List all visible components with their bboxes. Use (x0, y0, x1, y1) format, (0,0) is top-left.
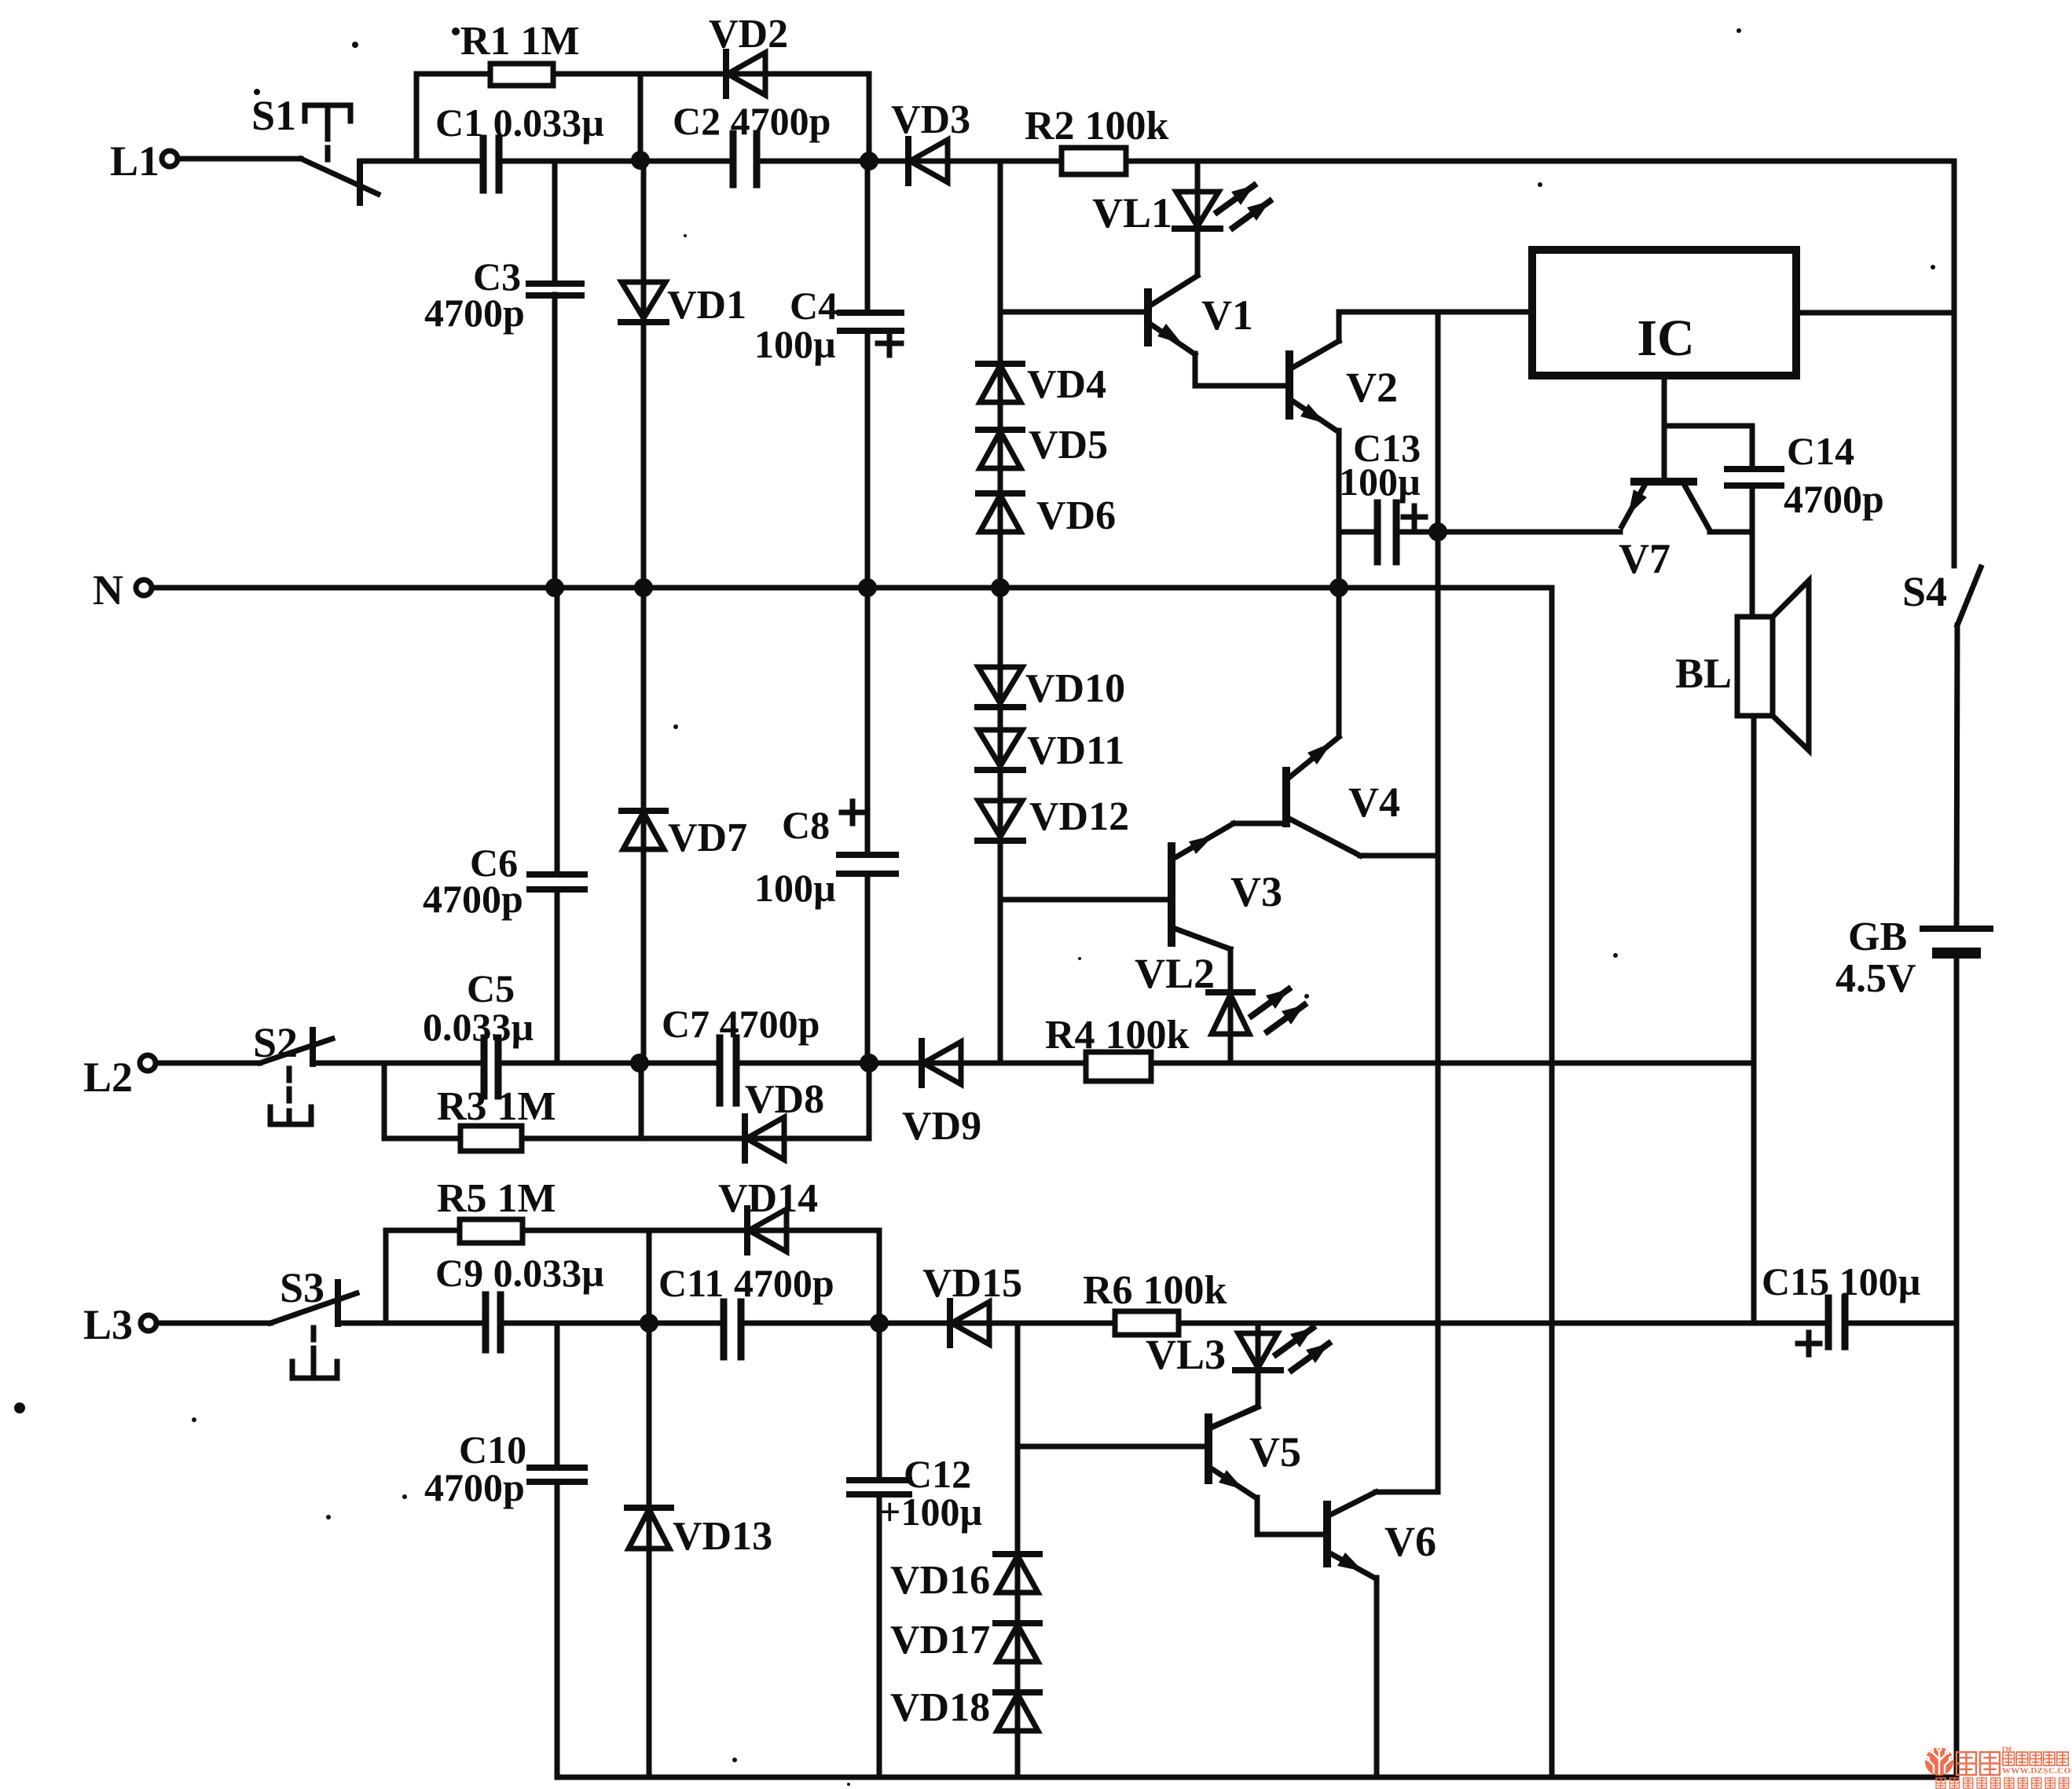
wire N drop column (1549, 588, 1555, 1777)
wire L2 lead (156, 1061, 260, 1066)
svg-text:C7 4700p: C7 4700p (662, 1002, 820, 1046)
capacitor C1 (435, 101, 604, 190)
wire S4 to GB (1956, 625, 1957, 929)
switch S2 (253, 1019, 332, 1124)
wire bottom line (557, 1775, 1956, 1780)
svg-text:R3 1M: R3 1M (437, 1084, 556, 1129)
svg-text:C14: C14 (1787, 429, 1854, 473)
diode VD6 (978, 493, 1116, 538)
svg-text:S3: S3 (280, 1264, 325, 1311)
svg-text:VD15: VD15 (922, 1261, 1022, 1306)
svg-text:L2: L2 (83, 1054, 133, 1101)
wire VL1 column (1195, 161, 1201, 275)
diode VD14 (718, 1176, 818, 1252)
diode VD2 (709, 12, 788, 96)
resistor R2 (1025, 104, 1169, 174)
svg-text:VD1: VD1 (667, 283, 746, 328)
resistor R5 (437, 1176, 556, 1243)
diode VD12 (977, 794, 1129, 841)
svg-text:VD9: VD9 (902, 1104, 981, 1149)
svg-text:C11 4700p: C11 4700p (658, 1261, 834, 1305)
led VL1 (1092, 185, 1270, 236)
transistor V7 (1619, 482, 1710, 582)
diode VD13 (627, 1508, 772, 1559)
node junction C2-VD3 (860, 152, 878, 170)
led VL3 (1146, 1328, 1329, 1378)
wire V1 emitter (1195, 354, 1289, 386)
svg-text:VD5: VD5 (1029, 423, 1108, 467)
wire L1 lead (178, 156, 301, 162)
diode VD15 (922, 1261, 1022, 1345)
svg-text:VL3: VL3 (1146, 1331, 1226, 1378)
wire V3 emitter to VL2 (1228, 949, 1234, 1063)
svg-text:V4: V4 (1348, 779, 1400, 826)
node junction C1-C2 (631, 151, 650, 170)
capacitor C5 (423, 966, 534, 1096)
svg-text:VD12: VD12 (1029, 794, 1129, 839)
resistor R4 (1045, 1013, 1190, 1081)
svg-text:BL: BL (1675, 650, 1732, 697)
wire V4 emitter (1360, 853, 1438, 859)
node junction C13 out (1428, 522, 1447, 541)
svg-text:4700p: 4700p (1784, 477, 1884, 521)
svg-text:R6 100k: R6 100k (1083, 1268, 1227, 1313)
wire L2 main line (313, 1061, 1754, 1066)
capacitor C9 (435, 1251, 604, 1350)
wire R5 row (386, 1230, 879, 1323)
diode VD9 (902, 1041, 981, 1149)
capacitor C13 (1339, 426, 1425, 562)
svg-text:R1 1M: R1 1M (460, 19, 580, 64)
svg-text:S2: S2 (253, 1019, 298, 1066)
node L3 terminal (83, 1301, 156, 1348)
svg-text:VD6: VD6 (1036, 493, 1116, 538)
capacitor C4 (754, 161, 901, 588)
diode VD5 (978, 423, 1108, 468)
wire V2 collector (1339, 312, 1532, 341)
capacitor C2 (673, 99, 831, 185)
capacitor C14 (1664, 426, 1884, 521)
diode VD7 (622, 811, 747, 860)
capacitor C3 (424, 161, 581, 588)
transistor V6 (1327, 1492, 1436, 1578)
wire V1 base (1000, 310, 1148, 315)
led VL2 (1135, 950, 1304, 1034)
capacitor C7 (662, 1002, 820, 1103)
svg-text:C8: C8 (782, 803, 830, 847)
diode VD3 (891, 97, 970, 183)
transistor V3 (1172, 823, 1282, 949)
diode VD16 (890, 1554, 1040, 1603)
svg-text:R4 100k: R4 100k (1045, 1013, 1190, 1058)
svg-text:VD13: VD13 (673, 1514, 772, 1559)
svg-text:VD16: VD16 (890, 1558, 990, 1603)
diode VD18 (890, 1685, 1040, 1731)
svg-text:VD7: VD7 (668, 816, 747, 860)
svg-text:WWW.DZSC.COM: WWW.DZSC.COM (2002, 1766, 2072, 1776)
switch S4 (1902, 567, 1981, 625)
svg-text:S4: S4 (1902, 568, 1947, 615)
svg-text:VD8: VD8 (745, 1077, 824, 1122)
wire top right column (1952, 161, 1957, 566)
wire L3 main line (338, 1321, 1956, 1326)
svg-text:VD11: VD11 (1027, 728, 1124, 773)
node N terminal (93, 566, 152, 614)
wire V3 base (1003, 897, 1172, 903)
wire main right column (1436, 312, 1441, 1490)
svg-text:0.033µ: 0.033µ (423, 1005, 534, 1049)
svg-text:4.5V: 4.5V (1835, 956, 1916, 1001)
svg-text:+100µ: +100µ (878, 1490, 982, 1534)
diode VD17 (890, 1618, 1040, 1663)
wire R1 row (416, 74, 869, 161)
svg-text:C15 100µ: C15 100µ (1762, 1259, 1920, 1303)
svg-text:VD17: VD17 (890, 1618, 990, 1663)
op-amp U1 IC box (1532, 250, 1796, 376)
switch S3 (270, 1264, 357, 1378)
wire V6 emitter column (1374, 1578, 1380, 1777)
diode VD1 (621, 161, 746, 588)
svg-text:V6: V6 (1384, 1518, 1436, 1565)
svg-text:VD4: VD4 (1027, 362, 1106, 407)
wire VL3 to V5 collector (1212, 1406, 1258, 1428)
svg-text:R5 1M: R5 1M (437, 1176, 556, 1221)
svg-text:C4: C4 (790, 284, 838, 328)
svg-text:100µ: 100µ (754, 322, 836, 366)
svg-text:VL2: VL2 (1135, 950, 1215, 997)
wire VD16 column (1015, 1323, 1021, 1777)
resistor R6 (1083, 1268, 1227, 1335)
wire V5 emitter (1257, 1498, 1327, 1534)
wire R5 left vertical (383, 1230, 389, 1323)
svg-text:V5: V5 (1249, 1428, 1301, 1476)
wire VL3 column (1256, 1323, 1261, 1406)
svg-text:4700p: 4700p (424, 1465, 525, 1509)
wire V6 collector (1376, 1490, 1438, 1495)
resistor R1 (460, 19, 580, 86)
node L2 terminal (83, 1054, 156, 1101)
battery GB 4.5V (1835, 915, 1990, 1001)
svg-text:V3: V3 (1230, 868, 1282, 915)
wire BL column (1751, 716, 1757, 1323)
wire V2 emitter column (1337, 431, 1342, 735)
wire VD7 column (641, 588, 647, 1063)
wire IC right pin (1796, 310, 1954, 316)
node junction L2 right (860, 1054, 878, 1072)
wire V7 collector (1710, 530, 1752, 535)
wire C13 line (1339, 530, 1620, 535)
svg-text:R2 100k: R2 100k (1025, 104, 1169, 148)
svg-text:V1: V1 (1201, 291, 1253, 339)
svg-text:L1: L1 (110, 137, 160, 185)
wire VD13 column (647, 1323, 652, 1777)
wire L3 lead (156, 1321, 270, 1326)
transistor V5 (1208, 1407, 1301, 1498)
diode VD4 (978, 362, 1106, 407)
capacitor C6 (423, 588, 585, 1063)
svg-text:4700p: 4700p (424, 291, 525, 335)
capacitor C15 (1762, 1259, 1920, 1355)
svg-text:V7: V7 (1619, 535, 1670, 582)
svg-text:VD3: VD3 (891, 97, 970, 142)
wire IC bottom pin (1662, 376, 1667, 482)
svg-text:VD10: VD10 (1025, 666, 1125, 711)
transistor V2 (1289, 341, 1398, 431)
diode VD11 (977, 728, 1124, 773)
switch S1 (251, 92, 378, 203)
wire R3 row (384, 1063, 869, 1138)
wire L1 main line (360, 159, 1954, 164)
wire GB down column (1954, 953, 1960, 1777)
svg-text:C9 0.033µ: C9 0.033µ (435, 1251, 604, 1295)
svg-text:L3: L3 (83, 1301, 133, 1348)
svg-text:VL1: VL1 (1092, 189, 1172, 236)
wire N line (152, 585, 1552, 591)
transistor V1 (1148, 276, 1253, 354)
wire VD4 bus (998, 161, 1003, 588)
svg-text:S1: S1 (251, 92, 296, 139)
svg-text:100µ: 100µ (754, 866, 836, 910)
svg-text:VD14: VD14 (718, 1176, 818, 1221)
node junction L3 left (640, 1314, 658, 1333)
diode VD10 (977, 666, 1125, 711)
resistor R3 (437, 1084, 556, 1151)
wire R3 left vertical (382, 1063, 387, 1138)
svg-text:IC: IC (1637, 310, 1694, 367)
capacitor C12 (849, 1323, 982, 1777)
wire V5 base (1018, 1444, 1208, 1450)
svg-text:C5: C5 (467, 966, 515, 1010)
node junction L2 left (630, 1054, 649, 1072)
svg-text:100µ: 100µ (1339, 460, 1421, 504)
svg-text:VD18: VD18 (890, 1685, 990, 1730)
svg-text:C2 4700p: C2 4700p (673, 99, 831, 143)
transistor V4 (1286, 737, 1400, 856)
capacitor C11 (658, 1261, 834, 1357)
wire VD10 bus (998, 588, 1003, 1063)
node L1 terminal (110, 137, 178, 185)
svg-text:VD2: VD2 (709, 12, 788, 57)
diode VD8 (745, 1077, 824, 1160)
svg-text:N: N (93, 566, 123, 614)
speaker BL (1675, 581, 1809, 750)
node junction L3 right (870, 1314, 889, 1333)
svg-text:V2: V2 (1346, 364, 1398, 411)
capacitor C8 (754, 588, 896, 1063)
wire V3 collector to V4 (1234, 821, 1286, 827)
svg-text:GB: GB (1848, 915, 1907, 959)
node N dots (545, 578, 1348, 597)
capacitor C10 (424, 1323, 585, 1777)
svg-text:4700p: 4700p (423, 877, 523, 921)
wire C14 bottom lead (1750, 486, 1755, 617)
svg-text:C1 0.033µ: C1 0.033µ (435, 101, 604, 145)
